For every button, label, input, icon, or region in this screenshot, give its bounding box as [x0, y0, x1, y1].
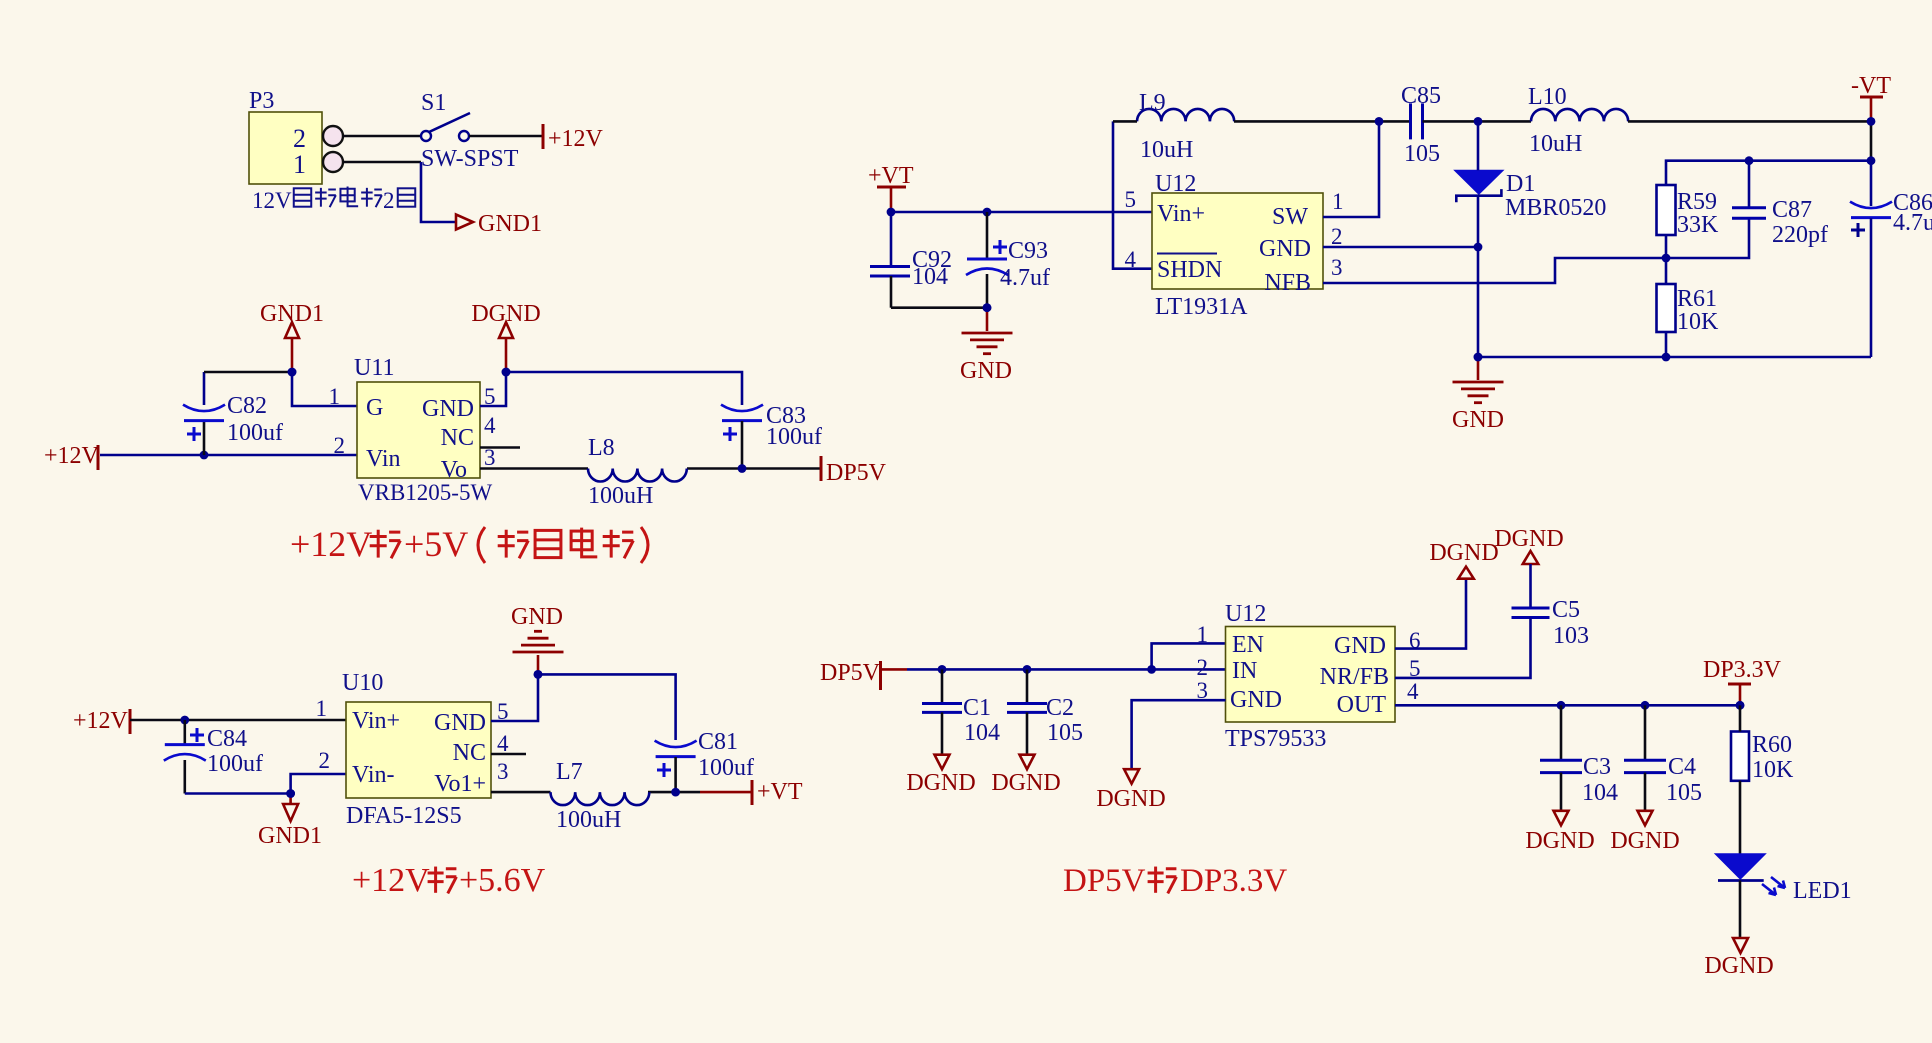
junction node GND1 (U11)	[288, 368, 297, 377]
svg-text:2: 2	[334, 433, 346, 458]
junction OUT at R60	[1736, 701, 1745, 710]
junction +VT at C92	[887, 208, 896, 217]
switch S1 value SW-SPST	[421, 146, 519, 172]
capacitor C92 label	[912, 247, 952, 273]
inductor L9	[1137, 109, 1234, 122]
svg-text:C1: C1	[963, 695, 991, 721]
power symbol GND1 (U10)	[258, 789, 322, 849]
svg-text:103: 103	[1553, 623, 1589, 649]
svg-text:NC: NC	[441, 425, 474, 451]
capacitor C87 label	[1772, 197, 1812, 223]
svg-text:P3: P3	[249, 88, 274, 114]
capacitor C84 value	[207, 751, 263, 777]
U10 pin name Vin-	[352, 762, 395, 788]
svg-text:C82: C82	[227, 393, 267, 419]
power symbol DGND (LED1)	[1704, 938, 1773, 979]
U11 pin name Vin	[366, 446, 401, 472]
svg-text:GND1: GND1	[260, 301, 324, 327]
svg-text:104: 104	[964, 720, 1000, 746]
resistor R60 value	[1752, 757, 1794, 783]
capacitor C1 value	[964, 720, 1000, 746]
svg-text:GND: GND	[1452, 407, 1504, 433]
U12 pin name IN	[1232, 658, 1257, 684]
svg-text:100uH: 100uH	[556, 807, 621, 833]
IC U12 part number LT1931A	[1155, 294, 1248, 320]
wire SW to top rail	[1323, 121, 1379, 217]
svg-text:DGND: DGND	[906, 770, 975, 796]
junction R61 bottom	[1662, 353, 1671, 362]
U11 pin name G	[366, 395, 383, 421]
capacitor C3 label	[1583, 754, 1611, 780]
svg-text:DP5V: DP5V	[820, 660, 881, 686]
svg-text:2: 2	[293, 124, 306, 153]
svg-text:1: 1	[293, 150, 306, 179]
U11 pin 2 number	[334, 433, 346, 458]
IC U10 designator	[342, 670, 383, 696]
svg-text:DGND: DGND	[1610, 828, 1679, 854]
svg-text:10uH: 10uH	[1140, 137, 1193, 163]
diode D1 designator	[1506, 171, 1535, 197]
power symbol DGND (C3)	[1525, 811, 1594, 854]
wire R61 to bottom rail	[1665, 332, 1668, 357]
resistor R61 value	[1677, 309, 1719, 335]
svg-text:DGND: DGND	[471, 301, 540, 327]
IC U12 designator (LT1931A)	[1155, 171, 1196, 197]
power port +12V (P3)	[543, 124, 604, 152]
caption DP5V to DP3.3V	[1063, 863, 1287, 899]
U12 pin 5 number	[1125, 187, 1137, 212]
svg-text:DGND: DGND	[1096, 786, 1165, 812]
junction at C1	[938, 665, 947, 674]
capacitor C86	[1850, 161, 1892, 357]
svg-text:NC: NC	[453, 740, 486, 766]
junction +VT at C93	[983, 208, 992, 217]
svg-text:33K: 33K	[1677, 212, 1719, 238]
IC U11 designator	[354, 355, 394, 381]
wire U10 Vo1+ to +VT	[491, 791, 752, 794]
capacitor C82	[183, 372, 225, 455]
svg-text:4: 4	[484, 413, 496, 438]
capacitor C85 value	[1404, 141, 1440, 167]
svg-text:10K: 10K	[1677, 309, 1719, 335]
svg-text:1: 1	[316, 696, 328, 721]
svg-text:GND: GND	[511, 604, 563, 630]
U12 TPS pin 4 number	[1407, 679, 1419, 704]
junction node GND (C93)	[983, 303, 992, 312]
junction NFB node	[1662, 254, 1671, 263]
resistor R61 designator	[1677, 286, 1717, 312]
U12 pin 4 number	[1125, 247, 1137, 272]
svg-text:100uf: 100uf	[766, 424, 822, 450]
power port +12V (U11)	[44, 443, 100, 470]
capacitor C3	[1540, 705, 1582, 811]
junction -VT mid	[1867, 156, 1876, 165]
inductor L7 value	[556, 807, 621, 833]
capacitor C93 label	[1008, 238, 1048, 264]
capacitor C93 value	[1000, 265, 1050, 291]
U12 pin 2 number	[1331, 224, 1343, 249]
svg-text:1: 1	[1332, 189, 1344, 214]
U11 pin name Vo	[441, 457, 467, 483]
svg-text:10K: 10K	[1752, 757, 1794, 783]
capacitor C2	[1007, 669, 1047, 754]
wire P3.1 to GND1	[343, 162, 455, 222]
wire +VT rail	[891, 211, 1113, 214]
svg-text:DGND: DGND	[991, 770, 1060, 796]
IC U12 body (LT1931A)	[1152, 193, 1323, 289]
wire DGND node to C83	[506, 372, 742, 405]
power port DP3.3V	[1703, 657, 1782, 710]
capacitor C83 value	[766, 424, 822, 450]
capacitor C4	[1624, 705, 1666, 811]
svg-text:2: 2	[1331, 224, 1343, 249]
junction bottom rail at D1	[1474, 353, 1483, 362]
svg-text:GND: GND	[1334, 633, 1386, 659]
LED LED1	[1715, 854, 1785, 895]
IC U12 part number TPS79533	[1225, 726, 1326, 752]
inductor L10	[1531, 109, 1628, 122]
U11 pin 5 number	[484, 384, 496, 409]
svg-text:1: 1	[1197, 622, 1209, 647]
svg-text:DGND: DGND	[1494, 526, 1563, 552]
power port +12V (U10)	[73, 708, 130, 734]
wire NFB to C87	[1666, 218, 1749, 258]
U12 pin name SHDN	[1157, 254, 1222, 284]
U10 pin name Vin+	[352, 708, 400, 734]
inductor L8 value	[588, 483, 653, 509]
svg-text:U10: U10	[342, 670, 383, 696]
wire GND node to C81 top	[538, 674, 676, 740]
connector P3 pin 1 pad	[323, 152, 343, 172]
U10 pin 2 number	[319, 748, 331, 773]
resistor R59 value	[1677, 212, 1719, 238]
power symbol GND (LT input)	[960, 303, 1013, 384]
U11 pin name NC	[441, 425, 474, 451]
svg-text:5: 5	[1125, 187, 1137, 212]
U10 pin name GND	[434, 710, 486, 736]
svg-text:DGND: DGND	[1429, 540, 1498, 566]
power symbol DGND (U11)	[471, 301, 540, 376]
power port DP5V (TPS in)	[820, 660, 907, 690]
wire +12V to U10 Vin+	[130, 719, 346, 722]
svg-text:Vin-: Vin-	[352, 762, 395, 788]
junction at C84 top	[180, 716, 189, 725]
svg-text:+12V: +12V	[548, 126, 604, 152]
capacitor C5 value	[1553, 623, 1589, 649]
capacitor C81 label	[698, 729, 738, 755]
svg-text:U12: U12	[1225, 601, 1266, 627]
svg-text:+VT: +VT	[757, 779, 803, 805]
svg-text:SHDN: SHDN	[1157, 257, 1222, 283]
U12 pin name Vin+	[1157, 201, 1205, 227]
capacitor C84	[164, 720, 206, 794]
wire U11 Vo to DP5V	[480, 467, 821, 470]
svg-text:DP5V: DP5V	[826, 460, 887, 486]
junction SW node	[1375, 117, 1384, 126]
IC U12 body (TPS79533)	[1226, 627, 1396, 723]
wire D1 vertical	[1477, 121, 1480, 357]
svg-text:GND1: GND1	[478, 211, 542, 237]
svg-text:GND: GND	[1259, 236, 1311, 262]
wire U10 pin2	[291, 774, 346, 794]
U10 pin 4 number	[497, 731, 509, 756]
svg-text:+12V: +12V	[73, 708, 129, 734]
svg-text:U11: U11	[354, 355, 394, 381]
svg-text:OUT: OUT	[1337, 692, 1387, 718]
wire Vin+/SHDN tie	[1113, 121, 1152, 268]
junction node GND1 (U10)	[286, 789, 295, 798]
svg-text:2: 2	[319, 748, 331, 773]
IC U11 part number	[358, 480, 492, 505]
capacitor C83 label	[766, 403, 806, 429]
svg-text:C2: C2	[1046, 695, 1074, 721]
wire L9 to C85	[1113, 120, 1411, 123]
svg-text:GND: GND	[434, 710, 486, 736]
svg-text:R60: R60	[1752, 732, 1792, 758]
IC U10 body	[346, 702, 491, 798]
power symbol GND (D1)	[1452, 353, 1504, 433]
wire top feedback rail	[1666, 161, 1871, 185]
junction OUT at C4	[1641, 701, 1650, 710]
capacitor C87	[1732, 161, 1766, 219]
capacitor C92 value	[912, 264, 948, 290]
junction at C81 bottom	[671, 788, 680, 797]
svg-text:DGND: DGND	[1704, 953, 1773, 979]
capacitor C5 label	[1552, 597, 1580, 623]
connector P3 body	[249, 112, 322, 184]
resistor R60 designator	[1752, 732, 1792, 758]
junction C87 top	[1745, 156, 1754, 165]
resistor R61	[1657, 284, 1676, 332]
U12 pin 1 number	[1332, 189, 1344, 214]
caption +12V to +5V (digital)	[290, 524, 648, 564]
svg-text:L9: L9	[1139, 90, 1166, 116]
svg-text:G: G	[366, 395, 383, 421]
svg-text:DGND: DGND	[1525, 828, 1594, 854]
inductor L7 designator	[556, 759, 583, 785]
caption +12V to +5.6V	[352, 862, 546, 899]
svg-text:-VT: -VT	[1851, 73, 1891, 99]
IC U10 part number	[346, 803, 462, 829]
junction -VT top	[1867, 117, 1876, 126]
capacitor C86 label	[1893, 190, 1932, 216]
IC U11 body	[357, 382, 480, 478]
wire +12V to U11 Vin	[100, 454, 357, 457]
svg-text:NR/FB: NR/FB	[1320, 664, 1389, 690]
svg-text:EN: EN	[1232, 632, 1264, 658]
wire TPS GND pin6 to DGND	[1395, 579, 1466, 649]
power symbol GND (U10)	[511, 604, 564, 679]
capacitor C1 label	[963, 695, 991, 721]
switch S1 designator	[421, 90, 446, 116]
U10 pin 1 number	[316, 696, 328, 721]
U12 TPS pin 5 number	[1409, 656, 1421, 681]
U12 pin name GND(3)	[1230, 687, 1282, 713]
power port -VT	[1851, 73, 1891, 121]
capacitor C4 value	[1666, 780, 1702, 806]
wire C92 to C93 bottom	[891, 306, 987, 309]
resistor R59	[1657, 185, 1676, 235]
capacitor C1	[922, 669, 962, 754]
svg-text:Vin+: Vin+	[1157, 201, 1205, 227]
svg-text:C87: C87	[1772, 197, 1812, 223]
capacitor C3 value	[1582, 780, 1618, 806]
svg-text:104: 104	[912, 264, 948, 290]
wire C82 top to GND1 node	[204, 371, 292, 374]
power symbol DGND (C2)	[991, 755, 1060, 796]
svg-text:C84: C84	[207, 726, 247, 752]
wire EN tie	[1152, 643, 1226, 669]
U12 pin name OUT	[1337, 692, 1387, 718]
svg-text:+12V: +12V	[290, 524, 372, 564]
wire U12 GND pin2	[1323, 246, 1478, 249]
U11 pin 4 number	[484, 413, 496, 438]
wire U10 GND to earth	[491, 674, 538, 721]
svg-text:10uH: 10uH	[1529, 131, 1582, 157]
wire P3.2 to S1	[343, 135, 421, 138]
inductor L9 value	[1140, 137, 1193, 163]
svg-text:100uf: 100uf	[698, 755, 754, 781]
svg-text:MBR0520: MBR0520	[1505, 195, 1606, 221]
svg-text:L8: L8	[588, 435, 615, 461]
svg-text:Vin+: Vin+	[352, 708, 400, 734]
capacitor C82 value	[227, 420, 283, 446]
junction node GND (U10)	[534, 670, 543, 679]
power symbol DGND (pin6)	[1429, 540, 1498, 579]
power symbol GND1 (U11)	[260, 301, 324, 376]
U12 pin name EN	[1232, 632, 1264, 658]
diode D1 part number	[1505, 195, 1606, 221]
svg-text:DFA5-12S5: DFA5-12S5	[346, 803, 462, 829]
U12 pin name NR/FB	[1320, 664, 1389, 690]
svg-text:+12V: +12V	[44, 443, 100, 469]
junction at C2	[1023, 665, 1032, 674]
svg-text:100uf: 100uf	[227, 420, 283, 446]
capacitor C85	[1411, 103, 1423, 139]
svg-text:4: 4	[1125, 247, 1137, 272]
wire U12 NFB pin3	[1323, 258, 1666, 283]
capacitor C84 label	[207, 726, 247, 752]
svg-text:LED1: LED1	[1793, 878, 1852, 904]
capacitor C5	[1395, 564, 1550, 678]
U12 pin name GND	[1259, 236, 1311, 262]
U11 pin 1 number	[329, 384, 341, 409]
capacitor C86 value	[1893, 210, 1932, 236]
capacitor C92	[870, 212, 910, 308]
wire L10 to -VT corner	[1628, 121, 1871, 160]
svg-text:2: 2	[1197, 655, 1209, 680]
U11 pin 3 number	[484, 445, 496, 470]
svg-text:C4: C4	[1668, 754, 1696, 780]
capacitor C83	[721, 405, 763, 469]
svg-text:105: 105	[1047, 720, 1083, 746]
svg-text:4: 4	[497, 731, 509, 756]
power port +VT (U10 out)	[752, 779, 803, 805]
power symbol DGND (C4)	[1610, 811, 1679, 854]
switch S1	[421, 113, 470, 141]
capacitor C82 label	[227, 393, 267, 419]
svg-text:100uH: 100uH	[588, 483, 653, 509]
svg-text:3: 3	[1331, 255, 1343, 280]
power port +VT (LT1931A)	[868, 163, 914, 212]
svg-text:+12V: +12V	[352, 862, 430, 899]
capacitor C2 value	[1047, 720, 1083, 746]
wire S1 to +12V	[469, 135, 543, 138]
junction OUT at C3	[1557, 701, 1566, 710]
U12 TPS pin 3 number	[1197, 678, 1209, 703]
connector P3 designator	[249, 88, 274, 114]
U12 TPS pin 6 number	[1409, 628, 1421, 653]
junction D1 top	[1474, 117, 1483, 126]
U10 pin name NC	[453, 740, 486, 766]
power symbol DGND (C5)	[1494, 526, 1563, 564]
svg-text:GND1: GND1	[258, 823, 322, 849]
inductor L10 designator	[1528, 84, 1567, 110]
svg-text:104: 104	[1582, 780, 1618, 806]
power symbol GND1 (P3)	[456, 211, 542, 237]
svg-text:+5V: +5V	[404, 524, 468, 564]
svg-text:VRB1205-5W: VRB1205-5W	[358, 480, 492, 505]
inductor L10 value	[1529, 131, 1582, 157]
IC U12 designator (TPS79533)	[1225, 601, 1266, 627]
wire bottom rail	[1478, 356, 1871, 359]
connector P3 pin 2 pad	[323, 126, 343, 146]
inductor L8	[588, 469, 687, 482]
LED LED1 designator	[1793, 878, 1852, 904]
junction at EN tie	[1147, 665, 1156, 674]
inductor L8 designator	[588, 435, 615, 461]
power symbol DGND (pin3)	[1096, 769, 1165, 812]
junction GND pin2 node	[1474, 243, 1483, 252]
svg-text:L10: L10	[1528, 84, 1567, 110]
svg-text:SW-SPST: SW-SPST	[421, 146, 519, 172]
svg-text:C93: C93	[1008, 238, 1048, 264]
svg-text:D1: D1	[1506, 171, 1535, 197]
inductor L7	[551, 792, 650, 805]
U11 pin 4 NC stub	[480, 446, 520, 449]
power symbol DGND (C1)	[906, 755, 975, 796]
svg-text:1: 1	[329, 384, 341, 409]
svg-text:NFB: NFB	[1264, 270, 1311, 296]
wire TPS GND pin3 to DGND	[1132, 700, 1226, 769]
wire C85 to D1 node	[1423, 120, 1532, 123]
svg-text:IN: IN	[1232, 658, 1257, 684]
svg-text:GND: GND	[960, 358, 1012, 384]
svg-text:4.7uf: 4.7uf	[1893, 210, 1932, 236]
svg-text:C3: C3	[1583, 754, 1611, 780]
U12 pin name NFB	[1264, 270, 1311, 296]
svg-text:C85: C85	[1401, 83, 1441, 109]
svg-text:DP5V: DP5V	[1063, 863, 1146, 899]
capacitor C93	[966, 212, 1008, 308]
wire R59 to R61	[1665, 235, 1668, 284]
junction at C82 bottom	[200, 451, 209, 460]
svg-text:105: 105	[1404, 141, 1440, 167]
wire R60 to LED1	[1739, 781, 1742, 854]
diode D1 MBR0520	[1454, 170, 1503, 202]
svg-text:L7: L7	[556, 759, 583, 785]
svg-text:GND: GND	[1230, 687, 1282, 713]
capacitor C81	[655, 741, 697, 793]
svg-text:105: 105	[1666, 780, 1702, 806]
svg-text:220pf: 220pf	[1772, 222, 1828, 248]
svg-text:2: 2	[383, 188, 395, 213]
U12 TPS pin 2 number	[1197, 655, 1209, 680]
junction node DGND (U11)	[502, 368, 511, 377]
U12 pin name GND(6)	[1334, 633, 1386, 659]
svg-text:C5: C5	[1552, 597, 1580, 623]
wire U11 pin5 to DGND node	[480, 372, 506, 406]
